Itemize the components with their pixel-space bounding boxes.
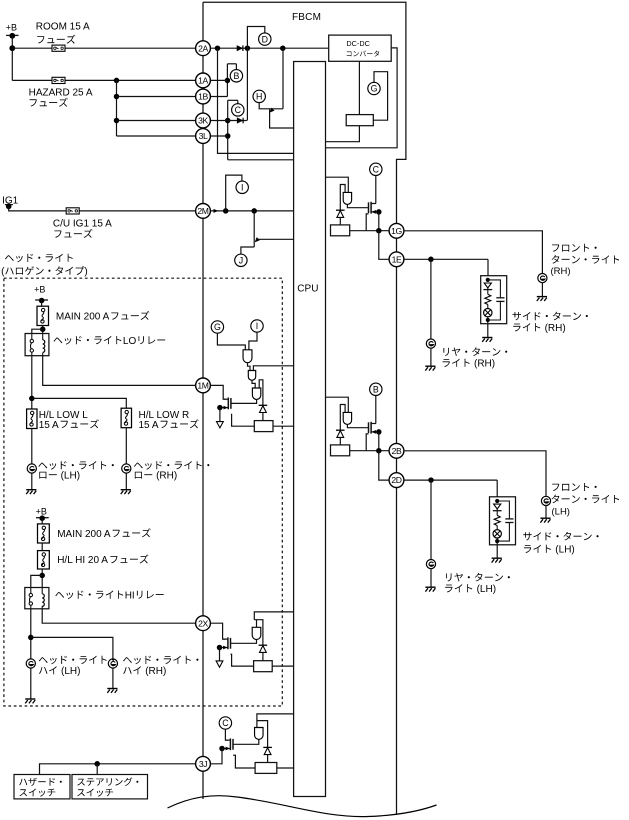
svg-text:LO: LO [123,336,137,347]
wire diode to resistor (3J) [267,755,269,763]
svg-text:2B: 2B [392,446,402,456]
wire 2A branch down to CPU [218,48,294,153]
wire 2D output row LH [404,479,497,481]
wire feed from 2A node down to pass transistor [282,48,284,109]
gate 1 (1M) [243,350,252,363]
wire to rear turn light LH [430,480,432,559]
wire buffer output to MOSFET gate [347,424,368,427]
label HAZARD 25A fuse [29,87,93,107]
svg-text:2X: 2X [198,618,208,628]
wire resistor to CPU [326,126,360,142]
protection diode (3J) [263,747,272,754]
wire resistor to CPU (2X) [272,665,293,667]
signal circle C [370,163,382,175]
output MOSFET [368,202,370,213]
wire buffer tap to protection diode [340,185,345,211]
wire source to ground arrow [219,408,221,422]
wire gate pulldown jog (3J) [233,755,255,768]
FBCM pin 3L [196,129,211,144]
FBCM pin 1G [389,223,404,238]
wire relay contact to fuses [31,356,33,409]
ground headlight hi RH [107,689,117,693]
svg-text:(RH): (RH) [156,471,177,482]
wire drain feed (3J) [225,729,228,740]
node LOW fuse split [29,396,35,402]
wire drain feed [375,395,377,423]
wire HAZARD row from +B to pin 1A [12,79,195,81]
FBCM pin 3K [196,113,211,128]
svg-text:ROOM 15 A: ROOM 15 A [36,21,90,32]
fuse ROOM 15A [52,45,65,51]
label headlight LO relay [54,336,122,345]
gate resistor (3J) [255,763,277,774]
wire to pin 3K [117,120,196,122]
wire flag D [247,27,264,49]
label H/L LOW R fuse [139,410,199,431]
node rear turn tap RH [428,257,434,263]
wire bulb to ground [30,668,32,699]
node source (2X) [217,645,223,651]
svg-text:C/U IG1 15 A: C/U IG1 15 A [53,219,112,230]
fuse H/L HI 20A [38,551,50,569]
CPU box [294,62,326,797]
svg-text:FBCM: FBCM [292,12,321,23]
gate resistor (2X) [254,661,273,672]
ground headlight hi LH [25,699,35,703]
wire bulb to ground [430,569,432,587]
wire source to ground arrow [219,648,221,661]
steering switch box [72,775,148,799]
wire H to pass transistor [259,102,283,109]
wire side marker to ground [487,324,489,338]
signal circle C (3J block) [219,717,231,729]
svg-text:I: I [256,321,258,331]
node rear turn tap LH [428,477,434,483]
FBCM pin 2X [196,616,211,631]
node MOSFET source [376,429,382,435]
svg-text:HAZARD 25 A: HAZARD 25 A [29,87,93,98]
gate buffer [343,192,351,204]
node relay feed [40,326,46,332]
svg-text:(LH): (LH) [61,666,80,677]
svg-text:MAIN 200 A: MAIN 200 A [56,312,110,323]
wire pin 1M to drain [210,385,225,399]
wire to side marker LH [496,480,498,497]
svg-text:+B: +B [36,507,47,517]
fuse MAIN 200A (LO) [37,306,49,325]
wire to steering switch [96,764,98,775]
svg-text:H/L HI 20 A: H/L HI 20 A [57,555,108,566]
bulb headlight low RH [122,464,131,473]
wire source to output row [378,212,380,231]
label front turn light LH [552,483,620,518]
FBCM pin 1B [196,89,211,104]
wire 3K through diode to 2A node [228,48,248,120]
FBCM module outline [203,2,406,814]
wire to relay contact [32,329,43,333]
wire resistor to CPU (3J) [277,767,294,769]
wire to H/L LOW R fuse [32,398,127,408]
wire to pin 3L [117,135,196,137]
bulb front turn light RH [538,274,547,283]
node diode output / D flag [245,45,251,51]
wire resistor to flag G [373,72,387,121]
svg-text:1M: 1M [197,381,208,391]
svg-text:C: C [235,105,242,115]
wire DC-DC bottom to resistor [358,61,360,114]
bulb rear turn light LH [426,560,435,569]
svg-text:3L: 3L [199,131,208,141]
bulb headlight hi RH [108,659,117,668]
wire gate pulldown jog (2X) [231,654,254,666]
wire buffer out to gate [234,739,259,744]
svg-text:15 A: 15 A [139,420,159,431]
fuse H/L LOW R 15A [121,408,131,428]
ground headlight low RH [121,490,131,494]
svg-text:C: C [373,165,380,175]
wire to rear turn light RH [430,259,432,339]
svg-text:1E: 1E [392,254,402,264]
side turn light RH assembly [481,276,507,324]
fuse MAIN 200A (HI) [38,524,50,543]
wire pin 3K into FBCM [210,120,227,122]
node output row [376,448,382,454]
svg-text:H: H [256,92,262,102]
FBCM pin 1A [196,73,211,88]
ground rear turn RH [425,366,435,370]
bulb headlight hi LH [26,659,35,668]
svg-text:I: I [241,183,243,193]
svg-text:2A: 2A [198,43,208,53]
power terminal +B (headlight HI) [36,507,49,522]
svg-text:): ) [84,267,87,278]
wire J branch down [253,211,255,247]
wire diode to resistor [339,437,341,445]
wire CPU to gate buffer (C block) [326,177,349,192]
svg-text:(RH): (RH) [145,666,166,677]
svg-text:1G: 1G [391,226,402,236]
label headlight hi LH [39,656,115,677]
wire pin 3J to switches [40,764,196,775]
wire to signal circle J [241,247,254,254]
wire IG1 to pin 2M [9,206,196,211]
wire down to second output pin [379,451,389,480]
node steering switch tap [94,761,100,767]
wire to HI bulb RH [31,637,113,659]
wire 1G to front turn light RH [404,231,543,274]
diode on 2A line [237,45,243,51]
label C/U IG1 15A fuse [53,219,112,238]
node 3L junction [225,133,231,139]
wire DC-DC output loop to CPU [326,48,398,148]
svg-text:+B: +B [34,285,45,295]
gate resistor (1M) [254,421,273,432]
wire gate pulldown jog (1M) [231,414,254,426]
wire pin 1A into FBCM [210,79,227,81]
wire CPU to gate buffer (B block) [326,397,349,412]
label headlight HI relay [55,591,123,600]
gate buffer [343,412,351,424]
ground front turn RH [537,297,547,301]
label front turn light RH [551,244,620,277]
gate buffer (3J) [255,728,263,740]
wire 2A to DC-DC converter [210,47,328,49]
wire HAZARD bus down to 1B/3K/3L [116,80,118,136]
node 1A junction [225,78,231,84]
wire source to output row [378,432,380,451]
svg-text:B: B [233,71,239,81]
signal circle G [368,82,380,94]
source ground (2X) [216,661,223,667]
svg-text:1B: 1B [198,92,208,102]
wire to relay contact (HI) [31,575,42,587]
label side turn light RH [513,312,588,334]
label headlight low LH [38,461,114,481]
svg-text:(LH): (LH) [555,545,574,556]
DC-DC converter box [329,35,392,61]
node source (1M) [217,405,223,411]
svg-text:G: G [371,84,378,94]
wire MAIN to H/L HI fuse [41,543,43,551]
wire gate pulldown jog [366,434,368,451]
source ground (1M) [217,422,224,428]
fuse C/U IG1 15A [66,208,79,214]
wire source to pin 3J [210,749,222,764]
node 3K tap [114,118,120,124]
wire diode to resistor (2X) [262,652,264,660]
wire bulb to ground [545,506,547,518]
protection diode (2X) [259,645,268,652]
node source (3J) [219,746,225,752]
svg-text:(LH): (LH) [552,507,570,518]
node relay feed (HI) [39,573,45,579]
gate buffer (2X) [252,627,261,639]
node MOSFET source [376,209,382,215]
signal circle G (1M block) [211,321,223,333]
svg-text:D: D [262,34,268,44]
node HAZARD branch [114,78,120,84]
node 2A down-branch [215,45,221,51]
pass transistor emitter arrow (H) [268,108,275,115]
svg-text:2D: 2D [391,475,401,485]
wire tap to protection diode (1M) [259,380,263,406]
label rear turn light RH [443,347,508,369]
protection diode [336,430,345,437]
diode on 3K line [237,118,243,124]
svg-text:3K: 3K [198,116,208,126]
wire fuse to relay [42,326,44,334]
output MOSFET (1M) [230,398,232,409]
bulb rear turn light RH [426,339,435,348]
wire 2B to front turn light LH [404,451,546,497]
protection diode [336,210,345,217]
svg-text:2M: 2M [197,206,208,216]
wire pin 2X to drain [210,623,225,639]
wire relay contact down [30,609,32,659]
label H/L LOW L fuse [39,410,99,431]
node I flag [223,208,229,214]
J transistor arrow [253,237,260,244]
output MOSFET [368,422,370,433]
power terminal IG1 [2,196,19,210]
break wave line at bottom [168,796,437,817]
label ROOM 15A fuse [36,21,90,43]
FBCM pin 2M [196,204,211,219]
wire bulb to ground [430,348,432,366]
FBCM pin 2A [196,41,211,56]
wire resistor to source/output node [350,230,390,232]
wire LOW R fuse to bulb [125,428,127,464]
wire CPU to J transistor [257,238,293,240]
gate 2 (1M) [248,371,255,381]
wire LOW L fuse to bulb [31,429,33,464]
FBCM pin 2B [389,443,404,458]
svg-text:1A: 1A [198,76,208,86]
signal circle I (1M block) [251,320,263,332]
FBCM pin 1E [389,252,404,267]
svg-text:C: C [222,718,229,728]
FBCM pin 2D [389,473,404,488]
wire down to second output pin [379,231,389,260]
wire +B down to 2A/HAZARD rows [11,36,13,81]
node J branch [251,208,257,214]
output MOSFET (3J) [232,739,234,750]
wire side marker to ground [496,545,498,558]
wire 1A/1B common to flag B [227,64,236,97]
gate resistor [331,445,350,456]
bulb headlight low LH [27,464,36,473]
wire to pin 1B [117,96,196,98]
FBCM pin 1M [196,378,211,393]
signal circle B [230,70,242,82]
wire buffer out to gate [231,640,257,644]
gate resistor [331,225,350,236]
wire 3K/3L common to flag C and CPU [228,100,294,160]
ground front turn LH [540,518,550,522]
fuse HAZARD 25A [52,77,65,83]
node output row [376,228,382,234]
wire relay coil to pin 2X [42,609,195,623]
svg-text:HI: HI [125,590,135,601]
wire G to gate 1 input [217,333,245,350]
node HI split [28,635,34,641]
bulb front turn light LH [541,496,550,505]
wire buffer output to MOSFET gate [347,204,368,207]
power terminal +B (headlight LO) [34,285,48,304]
FBCM pin 3J [196,756,211,771]
wire 2A row from +B to FBCM pin 2A [12,47,195,49]
wire resistor to CPU (1M) [273,425,294,427]
svg-text:(LH): (LH) [61,471,80,482]
gate 3 (1M) [252,388,260,399]
svg-text:(LH): (LH) [477,584,496,595]
wire 1E output row RH [404,258,488,260]
svg-text:3J: 3J [199,759,207,769]
wire resistor to source/output node [350,450,390,452]
node 1B tap [114,94,120,100]
wire gate2 out to gate3 [252,380,255,388]
wire gate pulldown jog [366,214,368,231]
wire pin 1B into FBCM [210,96,227,98]
wire CPU to gate2 [253,366,293,371]
wire drain feed [375,175,377,203]
node H-transistor feed [280,45,286,51]
wire +B to MAIN fuse [41,301,43,307]
label side turn light LH [523,532,598,556]
wire bulb to ground [125,473,127,489]
ground rear turn LH [425,587,435,591]
signal circle I [236,181,248,193]
hazard switch box [14,775,70,799]
svg-text:B: B [373,385,379,395]
wire +B to MAIN fuse (HI) [41,518,43,524]
relay headlight HI [25,588,49,609]
node 3K junction [225,118,231,124]
wire buffer tap to protection diode [340,405,345,431]
wire gate1 out to gate2 [248,363,251,371]
wire diode to resistor [262,413,264,421]
wire flag I [226,175,242,211]
wire fuse to relay (HI) [41,569,43,588]
node +B/ROOM junction [9,45,15,51]
signal circle C (3K) [232,104,244,116]
svg-text:MAIN 200 A: MAIN 200 A [57,529,111,540]
wire I to gate 1 input [249,332,257,350]
wire to side marker RH [487,259,489,275]
fuse H/L LOW L 15A [27,409,37,429]
wire diode to resistor [339,217,341,225]
ground headlight low LH [26,490,36,494]
wire 2M to CPU [210,210,293,212]
output MOSFET (2X) [230,638,232,649]
direction arrow after 2M [214,209,219,213]
wire CPU feed (3J block) [257,714,294,728]
headlight (halogen type) dashed option box [4,278,282,706]
svg-text:J: J [239,256,243,266]
ground side turn LH [492,558,502,562]
signal circle D [259,33,271,45]
side turn light LH assembly [490,497,516,545]
wire pin 3L into FBCM [210,135,227,137]
wire bulb to ground [112,668,114,688]
svg-text:DC-DC: DC-DC [346,39,370,48]
wire pass transistor to CPU [270,109,294,128]
wire gate3 out to MOSFET gate [231,399,256,403]
svg-text:G: G [214,322,221,332]
svg-text:(RH): (RH) [474,359,495,370]
ground side turn RH [482,338,492,342]
resistor below DC-DC [346,115,373,126]
label headlight hi RH [123,656,199,677]
signal circle H [253,90,265,102]
svg-text:(RH): (RH) [551,266,571,277]
label rear turn light LH [445,573,510,595]
signal circle J [235,254,247,266]
svg-text:+B: +B [6,23,17,33]
wire bulb to ground [541,283,543,297]
label headlight halogen type [1,254,88,278]
signal circle B [370,383,382,395]
wire CPU feed (2X block) [254,612,293,620]
svg-text:15 A: 15 A [39,420,59,431]
svg-text:CPU: CPU [297,284,318,295]
wire into gate buffer (2X) [256,620,258,628]
wire bulb to ground [31,473,33,489]
relay headlight LO [25,334,49,356]
power terminal +B (top left) [6,23,19,39]
protection diode (1M) [259,405,268,412]
label headlight low RH [134,461,210,481]
